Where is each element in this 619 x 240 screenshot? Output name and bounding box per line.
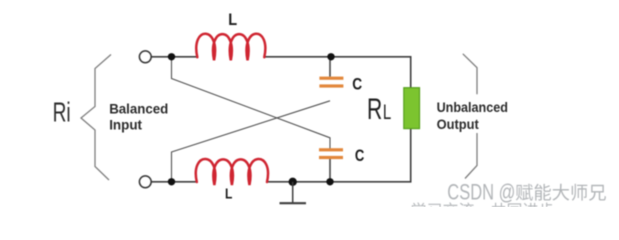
node C1 top junction: [327, 53, 334, 60]
svg-text:Input: Input: [109, 117, 142, 132]
svg-text:Balanced: Balanced: [109, 101, 168, 116]
brace right bottom: [465, 133, 477, 179]
wire top rail left: [151, 56, 197, 58]
node A top-left junction: [168, 53, 175, 60]
ground: [280, 182, 307, 203]
watermark chinese line 1: [516, 184, 606, 201]
terminal bottom-left: [139, 176, 151, 188]
wire bottom rail left: [151, 181, 197, 183]
node C2 bottom junction: [326, 178, 333, 185]
wire capacitor C1 stub: [329, 57, 331, 77]
inductor L2: [196, 159, 268, 185]
node ground junction: [289, 178, 297, 186]
capacitor C1: [319, 77, 343, 88]
svg-text:Ri: Ri: [53, 97, 71, 127]
brace right top: [463, 54, 477, 95]
wire cross B from capacitor C1 to node B: [172, 101, 331, 182]
svg-text:Unbalanced: Unbalanced: [437, 99, 508, 115]
svg-text:C: C: [355, 148, 365, 166]
terminal top-left: [139, 51, 151, 63]
svg-text:RL: RL: [367, 94, 391, 126]
capacitor C2: [319, 148, 343, 159]
wire capacitor C2 stub: [329, 159, 331, 182]
resistor RL: [404, 88, 420, 129]
node B bottom-left junction: [168, 178, 175, 185]
watermark partial line 2: [412, 202, 554, 217]
brace left: [81, 55, 111, 181]
wire cross A from node A to capacitor C2: [172, 57, 331, 149]
inductor L1: [196, 34, 265, 60]
wire bottom rail right: [267, 128, 411, 182]
svg-text:Output: Output: [437, 116, 480, 132]
svg-text:C: C: [352, 75, 362, 93]
svg-text:L: L: [225, 186, 232, 202]
svg-text:CSDN @: CSDN @: [447, 180, 515, 205]
svg-text:L: L: [228, 11, 237, 29]
wire top rail right: [264, 57, 411, 88]
